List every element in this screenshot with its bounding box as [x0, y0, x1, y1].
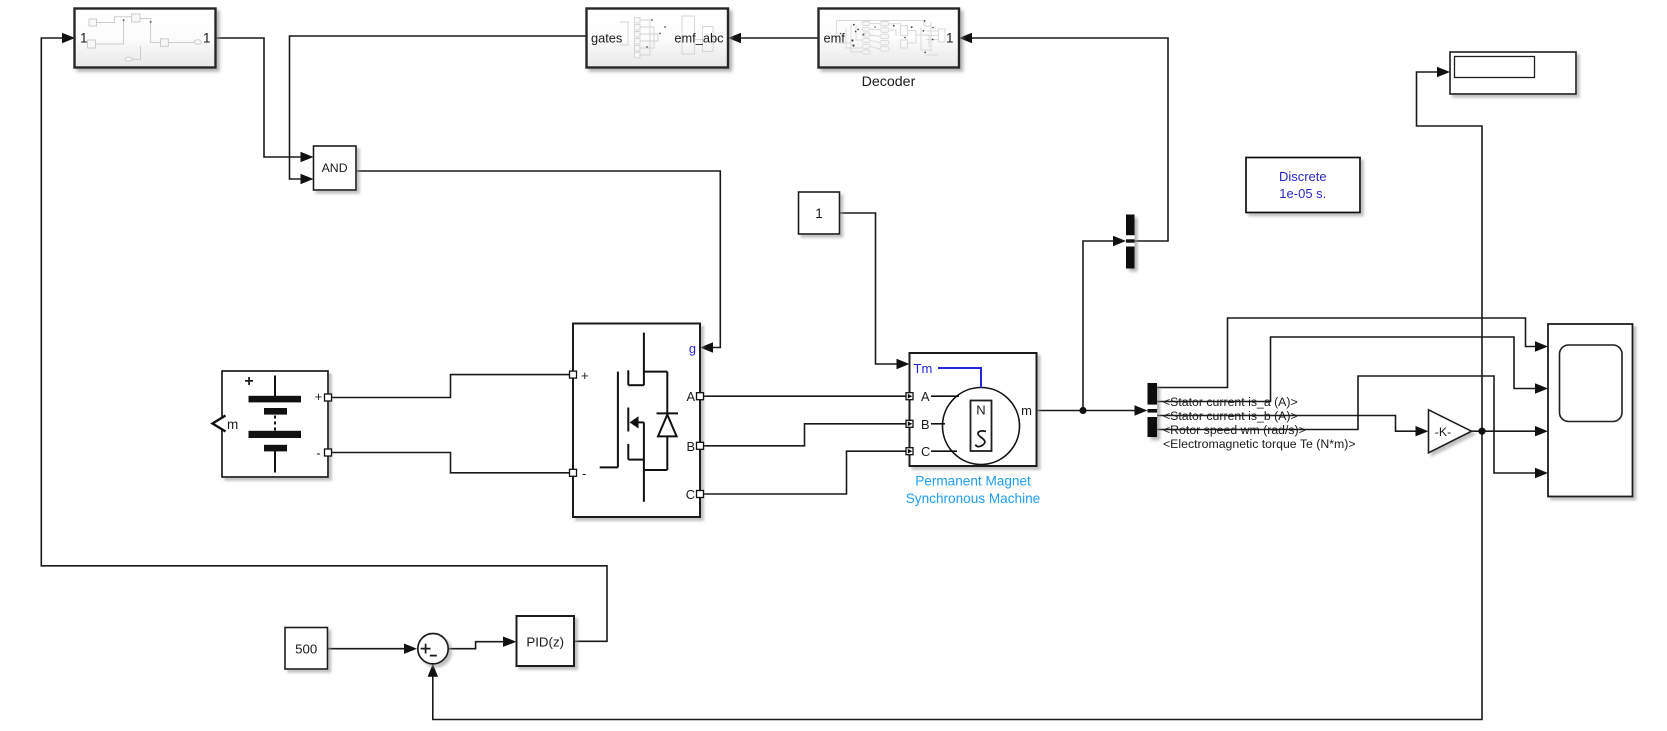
svg-text:B: B	[686, 439, 695, 454]
arrowhead scope in1	[1535, 341, 1548, 351]
svg-text:A: A	[686, 389, 695, 404]
wire gain out to scope in3	[1472, 430, 1536, 432]
wire converter C to machine C	[704, 451, 907, 494]
machine internal A line	[931, 395, 959, 397]
mosfet body connect	[637, 421, 644, 423]
PID(z) controller block	[517, 616, 575, 666]
arrowhead display input	[1437, 67, 1450, 77]
svg-text:C: C	[921, 444, 930, 459]
svg-text:-K-: -K-	[1435, 425, 1451, 439]
svg-text:Discrete: Discrete	[1279, 169, 1327, 184]
arrowhead into subsystem	[62, 33, 75, 43]
svg-text:<Electromagnetic torque Te (N*: <Electromagnetic torque Te (N*m)>	[1163, 437, 1356, 451]
svg-text:emf_abc: emf_abc	[674, 31, 724, 46]
wire sum out to PID in	[449, 642, 503, 649]
svg-text:-: -	[316, 446, 320, 461]
wire gain out branch to display	[1417, 72, 1483, 431]
mosfet gate lead	[600, 466, 618, 468]
svg-text:Tm: Tm	[914, 361, 933, 376]
powergui block Discrete	[1246, 158, 1360, 213]
machine Tm internal wire (blue)	[938, 368, 981, 388]
diode triangle	[658, 415, 677, 437]
svg-text:+: +	[581, 368, 589, 383]
mosfet body arrow	[630, 416, 639, 428]
svg-text:PID(z): PID(z)	[526, 634, 564, 649]
wire branch m to mux	[1083, 241, 1114, 411]
svg-text:-: -	[582, 466, 586, 481]
gain block -K-	[1429, 410, 1472, 453]
wire decoder out emf to emf_abc block	[740, 37, 819, 39]
subsystem block Decoder	[819, 9, 960, 91]
PMSM machine block	[906, 353, 1041, 506]
magnet rectangle	[971, 401, 992, 452]
wire mux out up to decoder input	[971, 38, 1168, 241]
mosfet gate bar	[617, 372, 619, 468]
svg-text:1e-05 s.: 1e-05 s.	[1279, 186, 1326, 201]
constant block 1	[799, 192, 840, 234]
svg-text:<Stator current is_b (A)>: <Stator current is_b (A)>	[1163, 409, 1298, 423]
machine A port square	[906, 393, 913, 400]
wire machine m out to bus selector, with branch	[1037, 410, 1136, 412]
AND logical operator block	[314, 146, 357, 190]
diode bottom lead	[666, 436, 668, 470]
mosfet drain lead	[643, 333, 645, 386]
svg-text:Synchronous Machine: Synchronous Machine	[906, 491, 1041, 506]
svg-text:1: 1	[80, 31, 88, 46]
machine internal C line	[931, 450, 957, 452]
display block	[1450, 52, 1576, 94]
mosfet source lead down	[643, 422, 645, 501]
wire gain out branch down to sum feedback	[433, 431, 1482, 719]
svg-text:gates: gates	[591, 31, 622, 46]
wire drain to diode branch	[644, 371, 667, 373]
svg-text:AND: AND	[322, 161, 348, 175]
wire AND out to converter g	[356, 171, 720, 348]
wire bus out3 rotor speed to gain	[1157, 416, 1416, 432]
wire battery + to converter +	[332, 375, 570, 398]
wire subsystem out to AND in1	[216, 38, 302, 157]
converter + port square	[570, 371, 577, 378]
machine C port square	[906, 448, 913, 455]
machine rotor circle	[943, 388, 1020, 465]
arrowhead bus selector input	[1135, 405, 1148, 415]
svg-text:N: N	[976, 403, 985, 418]
svg-text:m: m	[227, 417, 238, 432]
subsystem block top-left (speed ramp)	[75, 9, 216, 68]
svg-text:<Stator current is_a (A)>: <Stator current is_a (A)>	[1163, 395, 1298, 409]
mosfet drain connect	[628, 384, 644, 386]
svg-text:m: m	[1021, 403, 1032, 418]
arrowhead PID input	[503, 637, 517, 647]
svg-text:emf: emf	[824, 31, 846, 46]
arrowhead scope in2	[1535, 383, 1548, 393]
svg-text:B: B	[921, 417, 930, 432]
arrowhead gain input	[1416, 426, 1429, 436]
machine B port square	[906, 420, 913, 427]
battery - port square	[325, 449, 332, 456]
diode branch top lead	[666, 372, 668, 414]
diode cathode bar	[657, 412, 679, 414]
arrowhead sum left input	[404, 644, 417, 654]
mosfet channel segment bottom	[627, 444, 629, 460]
svg-text:1: 1	[203, 31, 211, 46]
svg-text:1: 1	[815, 206, 823, 221]
arrowhead emf_abc input (points left)	[728, 33, 741, 43]
arrowhead mux input	[1113, 236, 1126, 246]
converter C port square	[697, 491, 704, 498]
svg-text:Decoder: Decoder	[862, 74, 916, 90]
svg-text:500: 500	[295, 641, 317, 656]
wire source to diode bottom	[644, 469, 667, 471]
junction node gain output branch	[1478, 428, 1485, 435]
arrowhead converter g (points left)	[700, 342, 713, 352]
scope block	[1548, 324, 1633, 497]
svg-text:1: 1	[946, 31, 954, 46]
mosfet channel segment top	[627, 370, 629, 385]
wire battery - to converter -	[332, 453, 570, 473]
subsystem block gates / emf_abc	[587, 9, 729, 68]
wire speed-feedback loop: PID out up-left to subsystem input	[41, 38, 607, 641]
arrowhead sum bottom input (points up)	[428, 664, 438, 677]
arrowhead machine Tm	[897, 359, 910, 369]
converter block (MOSFET bridge)	[570, 324, 704, 518]
wire gates output to AND in2	[290, 36, 587, 179]
battery block	[213, 371, 332, 477]
arrowhead decoder input (points left)	[959, 33, 972, 43]
arrowhead AND in1	[301, 152, 314, 162]
wire bus out2 is_b to scope in2	[1157, 337, 1535, 402]
converter B port square	[697, 442, 704, 449]
machine internal B line	[931, 423, 945, 425]
wire bus out4 torque to scope in4	[1157, 376, 1535, 473]
svg-text:<Rotor speed wm (rad/s)>: <Rotor speed wm (rad/s)>	[1163, 423, 1306, 437]
mosfet channel segment mid	[627, 408, 629, 432]
arrowhead scope in4	[1535, 468, 1548, 478]
svg-text:C: C	[686, 487, 695, 502]
svg-text:Permanent Magnet: Permanent Magnet	[915, 474, 1031, 489]
wire constant 1 to machine Tm	[840, 213, 898, 364]
battery m port (left chevron)	[213, 416, 226, 432]
wire 500 to sum	[328, 648, 405, 650]
converter - port square	[570, 469, 577, 476]
wire bus out1 is_a to scope in1	[1157, 318, 1535, 388]
svg-text:g: g	[689, 341, 696, 356]
svg-text:+: +	[315, 390, 322, 404]
svg-text:A: A	[921, 389, 930, 404]
mosfet source connect	[628, 459, 644, 461]
wire converter A to machine A	[704, 395, 907, 397]
converter A port square	[697, 393, 704, 400]
constant block 500	[285, 628, 328, 670]
battery + port square	[325, 394, 332, 401]
junction node machine m branch	[1079, 407, 1086, 414]
stylized S glyph	[976, 431, 987, 447]
sum block	[418, 634, 448, 664]
wire converter B to machine B	[704, 424, 907, 446]
svg-text:+: +	[244, 373, 253, 390]
bus selector (machine measurements)	[1148, 383, 1158, 437]
mux / bus selector top (hall signals)	[1126, 215, 1135, 269]
arrowhead scope in3	[1535, 426, 1548, 436]
arrowhead AND in2	[301, 174, 314, 184]
